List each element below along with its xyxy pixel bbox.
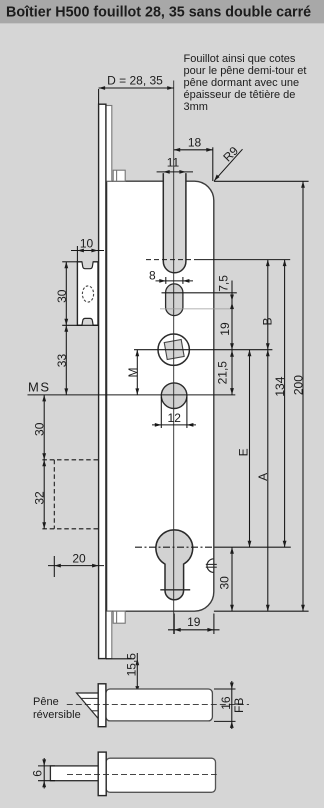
svg-text:6: 6 (31, 770, 45, 777)
svg-text:3mm: 3mm (184, 101, 208, 113)
left bracket part (77, 262, 98, 326)
svg-text:E: E (237, 448, 251, 456)
dimension 20 (48, 565, 104, 567)
svg-text:A: A (256, 473, 270, 481)
dimension 18 (174, 149, 213, 151)
spindle view faceplate bar (98, 752, 106, 796)
dimension 30 below MS (43, 395, 45, 460)
bracket bottom notch (82, 318, 93, 326)
dimension B (267, 260, 269, 350)
dimension M (136, 350, 138, 395)
radius leader R9 (214, 149, 242, 181)
svg-text:FB: FB (232, 698, 246, 713)
vertical centerline (173, 81, 175, 635)
dashed extension rectangle bottom line (42, 528, 98, 530)
dimension 30 bottom right (231, 547, 233, 611)
svg-text:15,5: 15,5 (125, 653, 139, 677)
dimension 7,5 (231, 281, 233, 350)
svg-text:32: 32 (33, 491, 47, 505)
dimension 134 (284, 260, 286, 548)
top boss box on case (113, 170, 125, 181)
follower axis line (134, 349, 272, 351)
case bottom extension line (214, 610, 309, 612)
latch head bevel (77, 693, 99, 719)
latch view centerline (67, 704, 249, 706)
bracket top notch (82, 261, 93, 269)
svg-text:épaisseur de têtière de: épaisseur de têtière de (184, 89, 296, 101)
cylinder axis line (135, 546, 215, 548)
svg-text:20: 20 (72, 552, 86, 566)
dimension 19 bottom (168, 629, 220, 631)
bracket oval slot (82, 286, 93, 302)
svg-text:33: 33 (55, 354, 69, 368)
svg-text:réversible: réversible (33, 709, 81, 721)
svg-text:pêne dormant avec une: pêne dormant avec une (184, 77, 300, 89)
dimension 11 (157, 171, 193, 173)
svg-text:30: 30 (217, 576, 231, 590)
spring hole (8mm stadium) (166, 284, 183, 316)
top guide strip behind faceplate (106, 106, 112, 182)
svg-text:11: 11 (167, 156, 180, 170)
svg-text:B: B (261, 317, 275, 325)
svg-text:M: M (126, 368, 140, 378)
latch bolt slot (pene demi-tour) (163, 173, 186, 273)
lock case body (107, 181, 214, 611)
follower hub circle (158, 334, 189, 365)
dimension 30 bracket (62, 261, 77, 263)
faceplate (tetiere) (99, 104, 106, 658)
bottom boss box on case (113, 611, 125, 623)
svg-text:12: 12 (168, 411, 182, 425)
follower square (fouillot) (164, 340, 184, 360)
dimension 16 (214, 688, 236, 690)
spindle shaft (50, 766, 98, 781)
dimension 6 (38, 765, 55, 767)
dimension 33 (65, 325, 67, 395)
svg-text:Boîtier H500 fouillot 28, 35 s: Boîtier H500 fouillot 28, 35 sans double… (6, 5, 311, 21)
MS axis line (28, 394, 236, 396)
spindle view centerline (67, 773, 217, 775)
svg-text:21,5: 21,5 (215, 361, 229, 385)
dimension 19 (230, 343, 234, 350)
svg-text:10: 10 (80, 237, 94, 251)
latch axis line (dashed + solid) (146, 259, 196, 261)
dimension 21,5 (231, 350, 233, 395)
spring hole upper ref line (162, 292, 237, 294)
dimension A (267, 350, 269, 612)
dimension 200 (302, 181, 304, 611)
dimension 32 (43, 460, 45, 529)
latch side view body (106, 689, 212, 721)
svg-text:134: 134 (273, 376, 287, 396)
dimension 10 (71, 250, 104, 252)
svg-text:30: 30 (33, 422, 47, 436)
svg-text:30: 30 (55, 289, 69, 303)
svg-text:8: 8 (149, 269, 156, 283)
dimension E (249, 350, 251, 548)
dashed extension rectangle top line (42, 459, 98, 461)
spindle view body (106, 758, 216, 792)
euro cylinder hole (156, 530, 193, 600)
svg-text:pour le pêne demi-tour et: pour le pêne demi-tour et (184, 65, 307, 77)
svg-text:19: 19 (218, 322, 232, 336)
svg-text:19: 19 (187, 615, 201, 629)
svg-text:18: 18 (188, 136, 202, 150)
latch view faceplate bar (98, 684, 106, 727)
title bar (0, 0, 324, 23)
svg-text:D = 28, 35: D = 28, 35 (107, 74, 163, 88)
svg-text:200: 200 (291, 375, 305, 395)
spring hole lower ref line (160, 308, 234, 310)
dimension D = 28, 35 (99, 87, 174, 89)
svg-text:Fouillot ainsi que cotes: Fouillot ainsi que cotes (184, 53, 296, 65)
edge notch symbol (207, 559, 214, 573)
case top extension line (214, 180, 309, 182)
cylinder cap chord line (160, 589, 190, 591)
dimension 12 (160, 397, 162, 428)
dimension 8 (156, 280, 194, 282)
dashed extension rectangle left line (53, 460, 55, 529)
svg-text:MS: MS (28, 380, 51, 395)
svg-text:7,5: 7,5 (217, 275, 231, 292)
svg-text:16: 16 (219, 696, 233, 710)
dimension 15,5 (106, 658, 134, 660)
svg-text:Pêne: Pêne (33, 696, 59, 708)
bottom guide strip behind faceplate (106, 611, 112, 658)
12mm hole below follower (161, 383, 187, 409)
